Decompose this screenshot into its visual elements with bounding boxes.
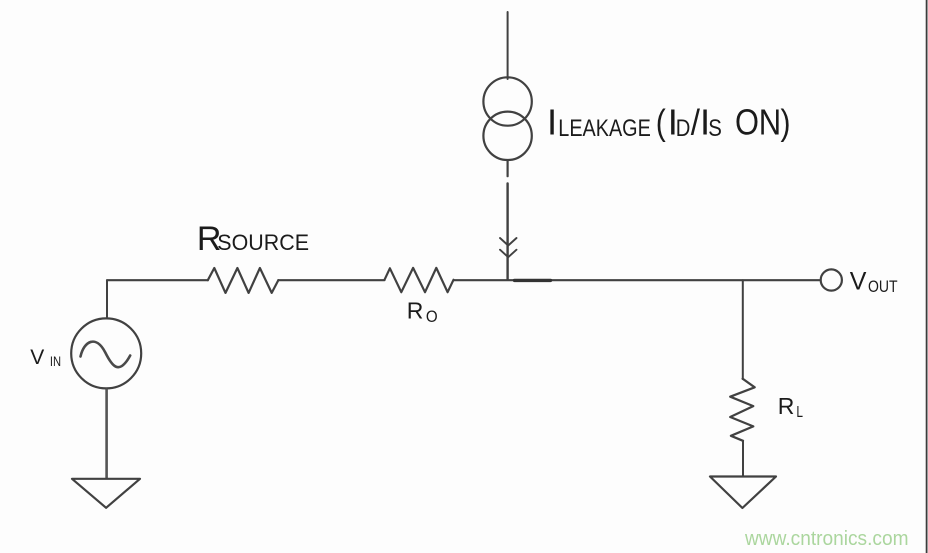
- svg-text:LEAKAGE: LEAKAGE: [558, 115, 651, 142]
- svg-text:L: L: [796, 404, 803, 421]
- svg-text:V: V: [30, 346, 44, 369]
- svg-text:R: R: [407, 298, 424, 324]
- svg-text:S: S: [708, 115, 722, 142]
- svg-text:OUT: OUT: [868, 277, 898, 296]
- svg-text:www.cntronics.com: www.cntronics.com: [744, 528, 908, 550]
- svg-text:O: O: [426, 307, 438, 326]
- svg-text:V: V: [850, 268, 867, 296]
- svg-text:N: N: [759, 102, 781, 143]
- svg-text:R: R: [778, 393, 795, 419]
- svg-text:I: I: [547, 102, 557, 143]
- svg-text:O: O: [735, 102, 759, 143]
- svg-text:(: (: [656, 102, 666, 143]
- svg-text:): ): [781, 102, 791, 143]
- svg-text:IN: IN: [50, 354, 61, 369]
- svg-text:D: D: [676, 115, 691, 142]
- svg-text:SOURCE: SOURCE: [217, 230, 309, 255]
